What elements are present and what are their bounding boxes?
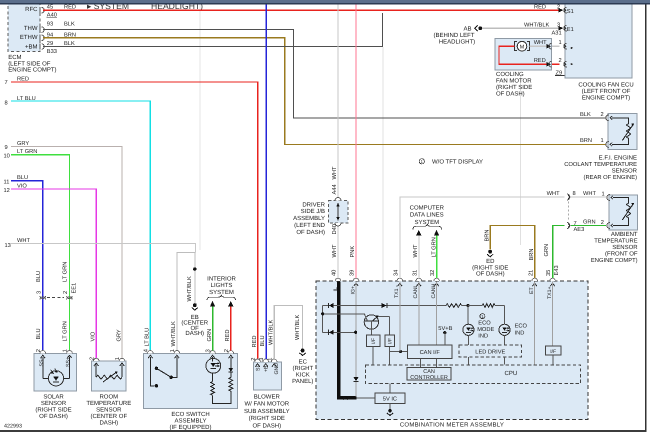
- svg-text:OF DASH): OF DASH): [496, 90, 525, 97]
- svg-text:SI: SI: [255, 366, 261, 371]
- wire WHT/BLK (blower GND to EC ground): [274, 305, 302, 359]
- svg-text:OF DASH): OF DASH): [252, 422, 281, 429]
- svg-text:PANEL): PANEL): [292, 378, 313, 385]
- svg-text:M: M: [520, 44, 525, 50]
- wire RED (ECO pin 2 to interior lights system): [230, 306, 232, 351]
- resistor below diode: [230, 372, 232, 378]
- svg-text:COOLING: COOLING: [496, 71, 524, 78]
- svg-text:WHT/BLK: WHT/BLK: [294, 315, 301, 340]
- svg-text:1: 1: [63, 349, 69, 352]
- svg-text:ENGINE COMPT): ENGINE COMPT): [8, 67, 56, 74]
- wire BLU (from top to blower +B): [265, 4, 267, 359]
- svg-text:2: 2: [251, 358, 257, 361]
- svg-text:CPU: CPU: [505, 370, 518, 377]
- combination meter assembly box: [316, 281, 588, 419]
- svg-text:E.F.I. ENGINE: E.F.I. ENGINE: [599, 155, 637, 162]
- svg-text:ASSEMBLY: ASSEMBLY: [293, 215, 325, 222]
- svg-text:+B: +B: [263, 365, 269, 372]
- svg-text:IND: IND: [515, 330, 525, 336]
- svg-text:GRN: GRN: [207, 329, 213, 342]
- wire PNK (from top to meter pin 39): [355, 4, 357, 281]
- svg-text:422993: 422993: [4, 423, 22, 429]
- svg-text:2: 2: [601, 220, 604, 226]
- svg-text:SUB ASSEMBLY: SUB ASSEMBLY: [244, 408, 290, 415]
- svg-text:OF DASH): OF DASH): [476, 271, 505, 278]
- svg-text:KICK: KICK: [296, 372, 310, 379]
- svg-text:8: 8: [5, 100, 8, 106]
- svg-text:FAN MOTOR: FAN MOTOR: [496, 77, 532, 84]
- svg-text:OF DASH): OF DASH): [39, 413, 68, 420]
- LED ECO MODE IND: [467, 306, 469, 325]
- svg-text:SENSOR: SENSOR: [41, 400, 67, 407]
- connector AE3: [567, 194, 570, 200]
- svg-text:(RIGHT SIDE: (RIGHT SIDE: [472, 264, 508, 271]
- cooling fan ECU U2 box (LEFT FRONT OF ENGINE COMPT): [565, 3, 632, 78]
- svg-text:E1: E1: [567, 27, 574, 33]
- EFI engine coolant temperature sensor box (REAR OF ENGINE): [608, 113, 637, 149]
- wire BRN (ED ground to meter pin 21 ET): [490, 226, 535, 282]
- ground at 5V IC: [389, 403, 391, 409]
- svg-text:VIO: VIO: [91, 331, 97, 341]
- svg-text:32: 32: [430, 270, 436, 276]
- svg-text:I/F: I/F: [371, 338, 377, 344]
- svg-text:39: 39: [350, 270, 356, 276]
- wire WHT (meter pin 31 to computer data lines): [418, 235, 420, 281]
- wire RED (motor to ECU pin 2 Z9): [499, 46, 547, 64]
- svg-text:E43: E43: [554, 265, 560, 275]
- cooling fan motor M1 box (RIGHT SIDE OF DASH): [495, 39, 552, 70]
- wire GRN (meter TX1+ pin 35 to ambient sensor pin 2): [553, 226, 565, 282]
- svg-text:I/F: I/F: [388, 338, 394, 344]
- wire WHT (from top through driver side J/B to meter pin 40): [337, 4, 339, 281]
- solar sensor box (RIGHT SIDE OF DASH): [34, 353, 76, 391]
- svg-text:S1: S1: [567, 9, 574, 15]
- meter pin 21 (ET): [532, 278, 538, 281]
- svg-text:13: 13: [5, 243, 11, 249]
- svg-text:A44: A44: [332, 184, 338, 194]
- svg-text:GRY: GRY: [116, 329, 122, 341]
- svg-text:SS+: SS+: [66, 357, 72, 367]
- thermistor symbol: [612, 118, 629, 124]
- svg-text:WHT: WHT: [332, 166, 338, 179]
- svg-text:ECO: ECO: [515, 324, 528, 330]
- ECU pin row y=46.2: [564, 43, 567, 49]
- svg-text:HEADLIGHT): HEADLIGHT): [439, 38, 475, 45]
- svg-text:THW: THW: [24, 25, 38, 32]
- thermistor symbol: [613, 198, 629, 204]
- ECU pin row y=64.2: [564, 61, 567, 67]
- svg-text:COMPUTER: COMPUTER: [410, 204, 445, 211]
- svg-text:IND: IND: [478, 334, 488, 340]
- svg-text:31: 31: [412, 270, 418, 276]
- ECM U-ECM box (LEFT SIDE OF ENGINE COMPT): [8, 2, 40, 52]
- svg-text:LT GRN: LT GRN: [63, 321, 69, 341]
- svg-text:9: 9: [5, 145, 8, 151]
- CAN I/F box: [407, 345, 452, 358]
- diode D2: [382, 303, 387, 308]
- svg-text:2: 2: [89, 357, 95, 360]
- svg-text:LT GRN: LT GRN: [63, 262, 69, 282]
- svg-text:DRIVER: DRIVER: [302, 201, 325, 208]
- svg-text:CANH: CANH: [431, 284, 437, 299]
- wire GRN (ECO pin 3 to interior lights system): [212, 306, 214, 351]
- svg-text:(LEFT SIDE OF: (LEFT SIDE OF: [8, 60, 51, 67]
- wire CANH internal: [436, 282, 438, 346]
- svg-text:COMBINATION METER ASSEMBLY: COMBINATION METER ASSEMBLY: [400, 422, 504, 429]
- ambient temperature sensor box (FRONT OF ENGINE COMPT): [609, 195, 638, 230]
- svg-text:WHT/BLK: WHT/BLK: [524, 21, 549, 28]
- svg-text:ASSEMBLY: ASSEMBLY: [175, 418, 207, 425]
- svg-text:(RIGHT: (RIGHT: [292, 365, 313, 372]
- thermistor symbol: [95, 365, 97, 378]
- meter pin 40 (IL): [335, 278, 341, 281]
- svg-text:(REAR OF ENGINE): (REAR OF ENGINE): [584, 174, 638, 181]
- svg-text:1: 1: [170, 349, 176, 352]
- wire ET internal: [534, 282, 536, 365]
- svg-text:93: 93: [47, 21, 53, 27]
- svg-text:1: 1: [601, 138, 604, 144]
- CAN CONTROLLER box: [407, 367, 451, 380]
- svg-text:(RIGHT SIDE: (RIGHT SIDE: [35, 406, 71, 413]
- 5V IC box: [389, 384, 391, 393]
- transistor Q1: [364, 315, 378, 329]
- thick IL bus wire: [339, 282, 357, 398]
- svg-text:DASH): DASH): [99, 419, 118, 426]
- svg-text:2: 2: [63, 291, 69, 294]
- svg-text:GRN: GRN: [583, 220, 596, 226]
- svg-text:3: 3: [259, 358, 265, 361]
- base feed wire: [323, 313, 365, 315]
- I/F box right: [385, 335, 395, 347]
- wire IG+ internal: [355, 282, 357, 397]
- svg-text:IG+: IG+: [350, 286, 356, 295]
- svg-text:1: 1: [268, 358, 274, 361]
- svg-text:1: 1: [115, 357, 121, 360]
- svg-text:TEMPERATURE: TEMPERATURE: [594, 239, 638, 245]
- svg-text:RED: RED: [252, 335, 258, 347]
- svg-text:INTERIOR: INTERIOR: [207, 276, 236, 283]
- meter pin 31 (CANL): [416, 278, 422, 281]
- wire TX1- internal: [399, 282, 401, 352]
- svg-text:21: 21: [528, 270, 534, 276]
- ground EB (CENTER OF DASH): [193, 303, 197, 307]
- svg-text:AMBIENT: AMBIENT: [611, 231, 638, 238]
- svg-text:WHT/BLK: WHT/BLK: [186, 276, 193, 301]
- svg-text:SIDE J/B: SIDE J/B: [301, 208, 325, 215]
- svg-text:BLK: BLK: [580, 112, 591, 118]
- svg-text:(CENTER OF: (CENTER OF: [90, 413, 127, 420]
- svg-text:SOLAR: SOLAR: [43, 393, 64, 400]
- svg-text:(LEFT FRONT OF: (LEFT FRONT OF: [582, 88, 631, 95]
- svg-text:ENGINE COMPT): ENGINE COMPT): [582, 94, 630, 101]
- svg-text:BLK: BLK: [64, 21, 75, 27]
- svg-text:7: 7: [5, 80, 8, 86]
- CAN CONTROLLER / CPU dashed box: [366, 365, 581, 384]
- svg-text:12: 12: [4, 188, 10, 194]
- svg-text:ET: ET: [529, 286, 535, 293]
- svg-text:ECM: ECM: [8, 54, 21, 61]
- resistor below LED: [212, 373, 214, 381]
- svg-text:11: 11: [4, 179, 10, 185]
- svg-text:DATA LINES: DATA LINES: [410, 212, 444, 219]
- ECO switch assembly box (IF EQUIPPED): [143, 353, 237, 408]
- svg-text:4: 4: [143, 349, 149, 352]
- svg-text:40: 40: [332, 270, 338, 276]
- svg-text:2: 2: [36, 349, 42, 352]
- svg-text:A31: A31: [552, 30, 562, 36]
- svg-text:ETHW: ETHW: [20, 34, 38, 41]
- svg-text:TX1+: TX1+: [547, 286, 553, 299]
- svg-text:GND: GND: [274, 363, 280, 375]
- ground EC (RIGHT KICK PANEL): [301, 349, 305, 353]
- I/F interconnect wires: [372, 347, 374, 365]
- svg-text:CONTROLLER: CONTROLLER: [410, 375, 448, 381]
- LED DRIVE dashed box: [459, 345, 522, 357]
- svg-text:AB: AB: [463, 25, 471, 32]
- svg-text:2: 2: [559, 58, 562, 64]
- svg-text:SENSOR: SENSOR: [612, 168, 638, 175]
- svg-text:LT GRN: LT GRN: [431, 237, 437, 257]
- ECU pin S1 y=10.2: [564, 7, 567, 13]
- svg-text:I/F: I/F: [550, 349, 556, 355]
- LED ECO IND: [504, 306, 506, 325]
- svg-text:GRN: GRN: [544, 244, 550, 257]
- diode D3 row: [323, 331, 356, 333]
- svg-text:ROOM: ROOM: [99, 393, 118, 400]
- svg-text:1: 1: [559, 40, 562, 46]
- svg-text:SENSOR: SENSOR: [612, 244, 638, 251]
- svg-text:BLU: BLU: [260, 335, 266, 346]
- svg-text:EC: EC: [299, 359, 308, 366]
- svg-text:2: 2: [601, 112, 604, 118]
- svg-text:LT BLU: LT BLU: [145, 328, 151, 347]
- diode D1: [329, 303, 334, 308]
- svg-text:EE1: EE1: [72, 283, 78, 294]
- svg-text:WHT: WHT: [332, 244, 338, 257]
- connector EE1: [47, 297, 64, 299]
- svg-text:SS-: SS-: [39, 358, 45, 367]
- svg-text:COOLANT TEMPERATURE: COOLANT TEMPERATURE: [564, 161, 637, 168]
- meter pin 39 (IG+): [353, 278, 359, 281]
- svg-text:7: 7: [574, 221, 577, 227]
- wire TX1+ internal: [552, 282, 554, 346]
- motor symbol M: [517, 41, 527, 51]
- svg-text:PNK: PNK: [350, 246, 356, 258]
- svg-text:BRN: BRN: [580, 138, 592, 144]
- svg-text:35: 35: [546, 270, 552, 276]
- svg-text:+BM: +BM: [25, 43, 38, 50]
- svg-text:(BEHIND LEFT: (BEHIND LEFT: [433, 32, 474, 39]
- note 1 circled: [480, 314, 485, 319]
- photodiode symbol: [42, 357, 44, 378]
- svg-text:LED DRIVE: LED DRIVE: [475, 350, 505, 356]
- I/F box left: [366, 335, 380, 347]
- meter pin 32 (CANH): [434, 278, 440, 281]
- meter pin 34 (TX1 -): [397, 278, 403, 281]
- svg-text:ED: ED: [486, 258, 495, 265]
- blower w/ fan motor sub assembly box (RIGHT SIDE OF DASH): [254, 362, 282, 390]
- ECO LED indicator: [206, 358, 221, 373]
- svg-text:WHT: WHT: [413, 244, 419, 257]
- driver side J/B assembly box (LEFT END OF DASH): [328, 201, 348, 224]
- solar pins 2,1: [40, 351, 46, 354]
- svg-text:CANL: CANL: [413, 285, 419, 299]
- svg-text:5V+B: 5V+B: [438, 326, 452, 332]
- svg-text:ECO SWITCH: ECO SWITCH: [171, 411, 209, 418]
- svg-text:AE3: AE3: [574, 227, 585, 233]
- svg-text:WHT/BLK: WHT/BLK: [268, 320, 275, 345]
- svg-text:RFC: RFC: [25, 6, 38, 13]
- svg-text:(FRONT OF: (FRONT OF: [605, 251, 638, 258]
- svg-text:MODE: MODE: [477, 327, 494, 333]
- svg-text:W/ FAN MOTOR: W/ FAN MOTOR: [245, 401, 290, 408]
- diode D4 on IG+: [354, 377, 359, 381]
- svg-text:W/O TFT DISPLAY: W/O TFT DISPLAY: [432, 159, 483, 166]
- wire WHT (motor to ECU pin 1): [529, 45, 546, 47]
- svg-text:10: 10: [4, 153, 10, 159]
- svg-text:BLOWER: BLOWER: [254, 393, 281, 400]
- svg-text:DASH): DASH): [185, 330, 204, 337]
- svg-text:2: 2: [224, 349, 230, 352]
- svg-text:TX1 -: TX1 -: [394, 285, 400, 298]
- ECU pin E1 y=28.2: [564, 25, 567, 31]
- svg-text:BRN: BRN: [484, 229, 490, 241]
- room pins 2,1: [93, 358, 99, 361]
- svg-text:1: 1: [602, 192, 605, 198]
- svg-text:(RIGHT SIDE: (RIGHT SIDE: [249, 415, 285, 422]
- svg-text:RED: RED: [225, 329, 231, 341]
- svg-text:8: 8: [573, 191, 576, 197]
- wire LT GRN (meter pin 32 to computer data lines): [436, 235, 438, 281]
- svg-text:BLU: BLU: [36, 328, 42, 339]
- svg-text:3: 3: [206, 349, 212, 352]
- svg-text:D40: D40: [332, 224, 338, 234]
- sensor pins 2,1: [606, 115, 609, 121]
- resistor R2: [468, 305, 482, 307]
- room temperature sensor box (CENTER OF DASH): [92, 361, 127, 391]
- svg-text:COOLING FAN ECU: COOLING FAN ECU: [578, 81, 633, 88]
- svg-text:B33: B33: [47, 49, 57, 55]
- svg-text:RED: RED: [534, 58, 546, 64]
- internal diode ladder: [323, 305, 446, 307]
- splice junction on WHT/BLK: [193, 267, 196, 270]
- wire WHT (meter TX1- pin 34 to ambient sensor pin 1): [400, 197, 565, 281]
- switch contacts: [150, 357, 154, 386]
- svg-text:(LEFT END: (LEFT END: [294, 222, 326, 229]
- meter pin 35 (TX1+): [550, 278, 556, 281]
- svg-text:WHT: WHT: [534, 40, 547, 46]
- svg-text:BRN: BRN: [529, 248, 535, 260]
- resistor R1: [446, 304, 462, 308]
- svg-text:(RIGHT SIDE: (RIGHT SIDE: [496, 84, 532, 91]
- svg-text:OF DASH): OF DASH): [296, 229, 325, 236]
- ECO pins 4,1,3,2: [148, 351, 154, 354]
- bottom link wire: [213, 391, 231, 403]
- svg-text:ENGINE COMPT): ENGINE COMPT): [591, 257, 638, 264]
- svg-text:LIGHTS: LIGHTS: [211, 282, 233, 289]
- ground ED (RIGHT SIDE OF DASH): [488, 250, 492, 254]
- CAN I/F to CAN controller wires: [419, 358, 421, 367]
- svg-text:SENSOR: SENSOR: [96, 406, 122, 413]
- wire CANL internal: [418, 282, 420, 346]
- svg-text:WHT/BLK: WHT/BLK: [170, 321, 177, 346]
- svg-text:TEMPERATURE: TEMPERATURE: [86, 400, 131, 407]
- note 1 W/O TFT DISPLAY: [419, 159, 424, 164]
- svg-text:34: 34: [393, 270, 399, 276]
- svg-text:WHT: WHT: [547, 191, 560, 197]
- svg-text:WHT: WHT: [583, 191, 596, 197]
- svg-text:CAN I/F: CAN I/F: [420, 349, 441, 356]
- blower pins 2,3,1: [255, 359, 261, 362]
- svg-text:5V IC: 5V IC: [383, 397, 397, 403]
- svg-text:ECO: ECO: [478, 320, 491, 326]
- svg-text:3: 3: [37, 291, 43, 294]
- diode at pin 2: [230, 357, 232, 368]
- svg-text:BLU: BLU: [36, 271, 42, 282]
- I/F box right side: [545, 346, 561, 355]
